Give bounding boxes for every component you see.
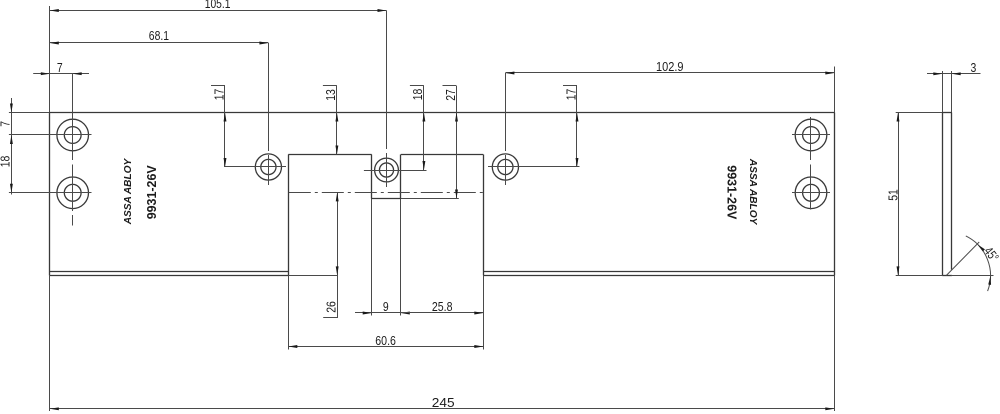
side view top edge [896, 112, 952, 114]
side view 45 deg chamfer line [946, 242, 979, 275]
plate top edge [9, 112, 834, 114]
plate left edge [49, 6, 51, 411]
small hole middle centerline [386, 11, 388, 188]
svg-text:9: 9 [383, 299, 389, 314]
hole right-bottom outer [795, 177, 827, 209]
svg-text:7: 7 [57, 60, 63, 75]
dim 102.9 [505, 59, 834, 74]
svg-text:68.1: 68.1 [149, 28, 169, 43]
small hole middle outer [375, 158, 399, 182]
svg-text:3: 3 [971, 60, 977, 75]
plate bottom bend line [50, 271, 835, 273]
svg-text:17: 17 [563, 89, 578, 101]
dim 27 [443, 86, 458, 199]
dim 3 [927, 60, 981, 75]
dim 68.1 [50, 28, 269, 44]
center tab right edge [400, 155, 402, 316]
dim 18 middle [410, 86, 425, 171]
svg-text:7: 7 [0, 121, 12, 127]
svg-text:25.8: 25.8 [432, 299, 453, 314]
hole left-top outer [57, 119, 89, 151]
left holes vertical centerline [72, 74, 74, 226]
side view right edge [951, 71, 953, 270]
svg-text:102.9: 102.9 [656, 59, 684, 74]
small hole right outer [492, 154, 518, 180]
small hole right crosshair [488, 166, 580, 168]
small hole left crosshair [225, 166, 286, 168]
svg-text:18: 18 [0, 156, 12, 168]
svg-text:27: 27 [443, 89, 458, 101]
svg-text:ASSA ABLOY: ASSA ABLOY [747, 158, 758, 226]
middle cutout left edge [288, 155, 290, 350]
dim 7 top [33, 60, 89, 75]
small hole middle inner [379, 163, 393, 177]
dim 9 [355, 299, 417, 315]
horizontal centerline (dash-dot) [289, 192, 484, 194]
small hole middle crosshair [364, 170, 427, 172]
left hole top crosshair [9, 134, 92, 136]
dim 51 [886, 113, 901, 276]
small hole left outer [255, 154, 281, 180]
dim 25.8 [401, 299, 484, 315]
small hole left centerline [268, 43, 270, 185]
hole left-top inner [64, 127, 81, 144]
middle cutout right edge [483, 155, 485, 350]
svg-text:18: 18 [410, 89, 425, 101]
dim 17 left [211, 86, 226, 168]
svg-text:9931-26V: 9931-26V [144, 165, 159, 219]
svg-text:51: 51 [886, 189, 901, 201]
plate bottom edge [50, 275, 835, 277]
small hole right inner [498, 159, 513, 174]
center tab left edge [371, 155, 373, 316]
hole right-top outer [795, 119, 827, 151]
dim 45 deg arc [966, 236, 1000, 291]
svg-text:13: 13 [323, 89, 338, 101]
side view bottom edge [896, 275, 994, 277]
dim 245 [50, 395, 835, 410]
svg-text:60.6: 60.6 [375, 333, 396, 348]
hole right-top inner [803, 127, 820, 144]
left hole bottom crosshair [9, 192, 92, 194]
dim 26 [323, 192, 339, 318]
hole left-bottom inner [64, 184, 81, 201]
middle cutout top edge [288, 154, 483, 156]
center tab bottom edge [372, 198, 459, 200]
plate right edge [834, 67, 836, 412]
dim 105.1 [50, 0, 387, 12]
svg-text:245: 245 [432, 395, 455, 410]
hole left-bottom outer [57, 177, 89, 209]
side view left edge [942, 71, 944, 275]
right holes vertical centerline [810, 117, 812, 210]
svg-text:105.1: 105.1 [205, 0, 231, 11]
svg-text:9931-26V: 9931-26V [725, 165, 740, 219]
svg-text:17: 17 [211, 89, 226, 101]
svg-text:26: 26 [324, 301, 339, 313]
dim 7 left [0, 98, 13, 195]
dim 17 right [563, 86, 578, 168]
right hole top crosshair [792, 134, 830, 136]
dim 13 [323, 86, 338, 155]
hole right-bottom inner [803, 184, 820, 201]
svg-text:ASSA ABLOY: ASSA ABLOY [123, 158, 134, 226]
small hole left inner [261, 159, 276, 174]
dim 18 left [0, 156, 13, 193]
right hole bottom crosshair [792, 192, 830, 194]
dim 60.6 [288, 333, 483, 348]
small hole right centerline [505, 73, 507, 185]
